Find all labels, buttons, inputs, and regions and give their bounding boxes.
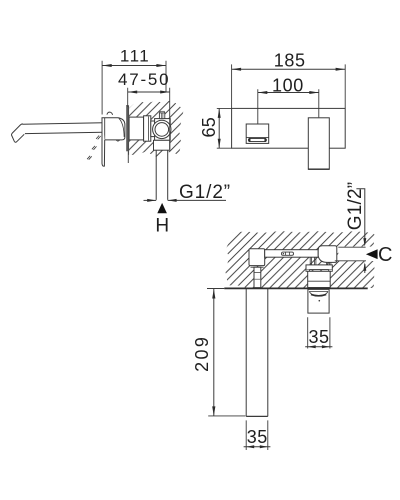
aerator dot bbox=[319, 300, 321, 302]
dimension 185 extension lines bbox=[232, 64, 346, 108]
spout escutcheon tube bbox=[308, 271, 331, 287]
spout cylinder below wall bbox=[308, 289, 329, 313]
extension line B (flange top level) bbox=[335, 260, 366, 262]
handle stem bbox=[254, 267, 261, 287]
handle lever slot bbox=[248, 138, 266, 141]
wall surface line (bottom view) bbox=[224, 287, 367, 289]
spout tube top line bbox=[22, 123, 103, 124]
wall hatch (bottom view) bbox=[226, 231, 375, 288]
aerator arcs bbox=[309, 291, 328, 293]
dimension 65 line bbox=[218, 108, 220, 148]
nubs under block bbox=[327, 263, 331, 265]
dimension 185 line bbox=[232, 68, 345, 70]
svg-text:209: 209 bbox=[192, 335, 212, 372]
dimension 47-50 line bbox=[128, 91, 170, 93]
arm badge bbox=[282, 252, 294, 255]
spout block (top view) bbox=[318, 246, 337, 263]
handle block (top view) bbox=[249, 249, 265, 266]
flange feet bbox=[306, 270, 332, 272]
wall plate bbox=[232, 108, 346, 148]
dimension 209 line bbox=[213, 289, 215, 416]
dimension 111 extension lines bbox=[102, 61, 166, 115]
dimension 35 (long tube) line bbox=[244, 446, 271, 448]
elbow circle inner bbox=[155, 123, 169, 137]
svg-text:100: 100 bbox=[272, 75, 304, 95]
handle body bbox=[102, 118, 125, 140]
wall face line (left surface) bbox=[128, 106, 130, 155]
legs under arm bbox=[310, 257, 316, 265]
up arrow to flange level bbox=[364, 264, 366, 273]
connector piece bbox=[151, 121, 156, 137]
dimension 35 (spout) extension lines bbox=[308, 317, 330, 348]
svg-text:G1/2”: G1/2” bbox=[345, 182, 366, 231]
svg-text:35: 35 bbox=[247, 427, 268, 447]
dimension 100 line bbox=[258, 92, 319, 94]
spout flange (wide) bbox=[306, 265, 332, 270]
G1/2 leader right arrow bbox=[168, 199, 226, 201]
bleed fitting on elbow bbox=[159, 113, 164, 119]
svg-text:185: 185 bbox=[274, 51, 306, 71]
mounting flange bbox=[144, 116, 151, 141]
elbow circle outer bbox=[153, 120, 171, 138]
G1/2 leader (bottom view) bbox=[356, 189, 364, 243]
C marker triangle bbox=[366, 249, 378, 259]
svg-text:35: 35 bbox=[308, 327, 329, 347]
valve cartridge housing in wall bbox=[129, 117, 144, 140]
lower elbow block bbox=[154, 140, 170, 150]
spout front view bbox=[308, 118, 329, 170]
dimension 100 extension lines bbox=[258, 89, 319, 123]
svg-text:H: H bbox=[155, 215, 169, 236]
svg-text:G1/2”: G1/2” bbox=[179, 182, 231, 203]
dimension 47-50 extension lines bbox=[128, 88, 170, 149]
arm (top view) bbox=[265, 250, 319, 258]
svg-text:65: 65 bbox=[199, 117, 219, 138]
dimension 209 ticks bbox=[207, 288, 224, 290]
handle top curl bbox=[107, 112, 113, 115]
escutcheon plate (edge-on, thick bar) bbox=[126, 105, 128, 151]
dimension 111 line bbox=[102, 65, 166, 67]
svg-text:47-50: 47-50 bbox=[118, 70, 170, 89]
spout angled tip bbox=[12, 124, 25, 142]
handle lever blade bbox=[102, 118, 105, 166]
spout tube bottom line bbox=[25, 132, 103, 133]
handle inner line bbox=[104, 118, 106, 140]
svg-text:111: 111 bbox=[120, 47, 150, 66]
elbow block bbox=[155, 119, 171, 141]
handle block lip bbox=[251, 266, 264, 268]
dimension 65 extension ticks bbox=[217, 108, 232, 148]
long tube (lever in top view) bbox=[246, 289, 268, 417]
supply pipe below valve bbox=[156, 150, 168, 200]
handle front view bbox=[246, 124, 269, 143]
G1/2 leader left arrow bbox=[144, 199, 157, 201]
stream tick marks bbox=[96, 136, 101, 140]
cleared band for C dimension bbox=[338, 247, 378, 261]
dimension 35 (long tube) extension lines bbox=[246, 420, 268, 450]
svg-text:C: C bbox=[378, 244, 392, 266]
wall hatch (side view) bbox=[129, 101, 184, 157]
extension line A (spout top level) bbox=[338, 246, 365, 248]
handle bottom notch bbox=[116, 140, 120, 141]
dimension 35 (spout) line bbox=[305, 346, 332, 348]
H marker triangle bbox=[157, 203, 167, 213]
handle inner right curve bbox=[119, 118, 124, 137]
